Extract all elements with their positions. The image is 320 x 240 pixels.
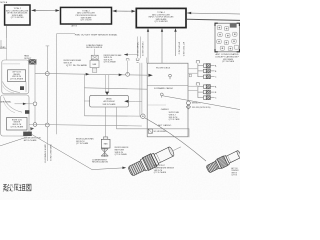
diamond symbol under N7 [186,105,190,109]
node N1 on W7 [33,102,37,106]
glyph 原 [14,184,19,191]
wire W8 : signal line with arrow to node on W7 [15,103,36,105]
glyph 图 [27,184,32,191]
controller U2 (ARC controller processor module, thick box) [61,7,112,24]
leader L1 : cluster down-left to edge [0,138,24,146]
temp probe symbol T2 [160,93,163,98]
detector blob on duct wall of FU2 [25,110,29,114]
sensor S2 labels [231,167,239,177]
arrow line toward fan label from sensor lines [124,54,138,56]
bus A horizontal duct line [35,73,147,75]
dark detector box D3 below FU2 [23,132,32,136]
plug P7 row3 [203,96,217,100]
wire W5 : vertical into U3 bottom with up arrow [148,29,176,64]
duct bend arcs in FU1 [3,82,21,93]
controller U1 (smoke detector controller module, thick box) [5,5,30,25]
plug P6 row2 [203,90,217,94]
flow arrow on bus A (left) [86,73,90,76]
connector group J2 [196,83,203,98]
wire from D1 down [25,82,27,92]
wire W4 : U3 to right edge (lower) [187,19,240,20]
flow arrow on bus A (right) [119,74,123,77]
sensor S1 labels [154,165,175,174]
arrow into plenum right side [136,100,142,102]
L-path from plenum bottom right [117,107,190,137]
grounded box symbol [148,129,152,133]
plug P5 row1 [203,85,217,89]
connector group J1 [196,61,203,77]
glyph 统 [7,184,13,191]
feed wires CB1 to bracket J1 [188,69,197,91]
text block inside CB1 [169,111,181,121]
arrow into compartment box left wall [148,74,152,77]
wire W6 : drop from U1 bottom [6,26,8,38]
wire W2 : U2 to U3 with arrowheads [113,10,136,12]
vertical V2 from bus A down [83,75,85,116]
wire from label down to recirc fan RF1 [94,49,96,55]
glyph 系 [3,184,7,191]
leader L2 : cluster down-right to sensor S1 [31,134,123,170]
node N5 on bus A [126,73,130,77]
label under connector block P1 [215,53,240,63]
node N3 on bus A at V1 [45,72,49,76]
wire into plenum left with arrow [84,100,89,102]
temperature sensor S1 [127,141,184,178]
label right of RF1 [104,54,122,64]
divider forward / aft cargo (partial) [147,104,166,106]
wire pair continues down to node N6 [139,63,141,116]
fan unit FU2 enclosure (rounded duct box) [1,95,29,136]
leader L4 : node N6 to sensor S2 [144,118,206,161]
smoke detector box D2 inside FU2 [7,118,27,131]
fan box FB1 [101,137,110,148]
hook connectors on line pair [136,58,139,60]
bus C to node N6 [84,115,140,117]
butterfly valve BV1 under FB1 [101,148,108,157]
controller U3 (input/output modules, thick box) [136,8,186,27]
flag symbol on cluster [30,127,34,130]
duct pair down from bus A into plenum box [104,75,106,93]
label left of FB1 [76,138,94,146]
tiny connector on CB1 right edge [189,74,191,77]
overboard exit box at left edge [0,38,7,49]
plug P4 row3 [203,75,217,79]
node N2 on bus B at x=35 [33,123,37,127]
glyph 理 [19,185,25,191]
temp probe symbol T1 [169,74,172,79]
wire W1 : U1 to U2 with arrowheads [32,9,60,11]
stub up from node N5 with hook [127,61,129,75]
plug P3 row2 [203,69,217,73]
caption 系统原理图 drawn strokes [3,184,31,191]
divider flight deck / forward cargo [147,84,188,86]
fan unit FU1 enclosure (rounded duct box) [2,60,29,94]
vertical line V1 with top tick [46,45,50,47]
recirculation fan RF1 [90,55,99,72]
node N6 junction circle [141,114,145,118]
enclosure left border [56,34,58,135]
stub above compartment box corner [146,58,148,64]
smoke detector box D1 inside FU1 [8,70,26,82]
label right of BV1 [115,146,129,156]
duct stub from exit box into fan unit FU1 [6,49,8,60]
bus B horizontal [29,124,142,126]
wire W3 : U3 to right edge (upper) with arrowhead into U3 [187,13,240,14]
label left of RF1 [64,59,89,67]
plenum box PL1 [90,95,129,107]
detector blob on duct wall of FU1 [20,86,24,90]
duct bend arcs in FU2 [4,97,23,113]
node N7 wheel circle on CB1 right edge [187,101,191,105]
plug P2 row1 [203,64,217,68]
wire W7 : fan F1 down to bus A then down to bus B [34,65,36,125]
connector block P1 (face view with grommets) [215,23,239,52]
node N4 on bus B at V1 [45,123,49,127]
leader L3 : temp probe T2 to right edge [163,96,240,110]
compartment box CB1 [147,63,188,137]
bus D to compartment box [84,88,147,89]
temperature sensor S2 [205,149,242,174]
fan F1 (dark hatched blob) [29,59,37,64]
sensor line pair from enclosure top [137,37,139,59]
wire plenum bottom to fan box FB1 [105,107,107,137]
scan grain overlay [0,0,240,200]
